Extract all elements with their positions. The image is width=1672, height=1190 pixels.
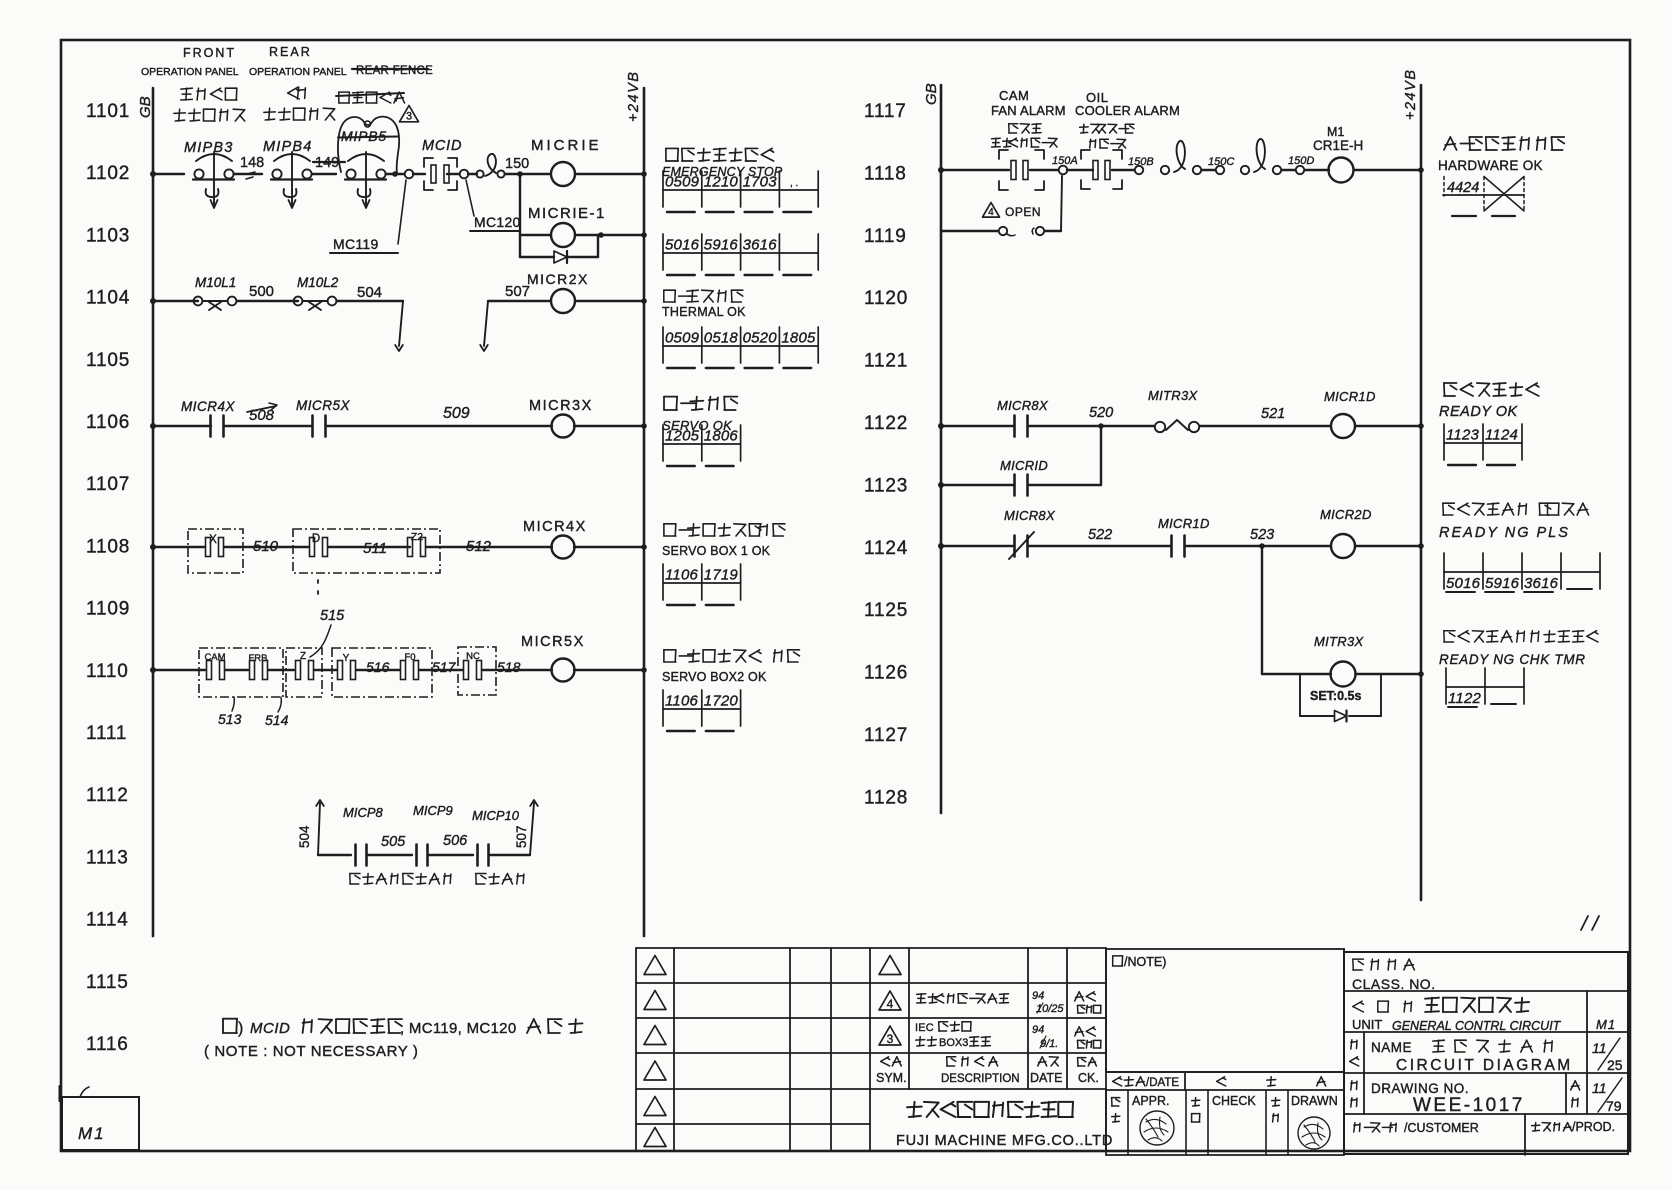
wire 150D to coil M1 CR1E-H [1305,169,1329,171]
wire node 150 to coil MICRIE [505,173,550,175]
svg-text:150: 150 [505,156,529,172]
svg-text:M10L2: M10L2 [297,275,339,290]
wire node 510 [224,546,309,548]
note box [1106,949,1344,1072]
wire rung 1119 bypass with open switch [941,230,998,232]
svg-text:0509: 0509 [665,330,700,347]
svg-text:SERVO BOX2 OK: SERVO BOX2 OK [662,670,767,684]
svg-text:0518: 0518 [704,330,739,347]
cross-reference 1122 [1446,686,1524,688]
svg-text:REAR FENCE: REAR FENCE [356,65,433,77]
svg-text:500: 500 [249,283,274,300]
wire node 505 [367,854,412,856]
svg-text:507: 507 [514,825,529,848]
svg-text:MICP10: MICP10 [472,808,520,823]
svg-text:CAM: CAM [999,88,1029,103]
wire coil MICR5X to +24VB bus [574,669,644,671]
wire node 523 to coil MICR2D [1185,545,1331,547]
svg-text:11: 11 [1592,1080,1607,1096]
svg-text:MICR4X: MICR4X [181,399,236,414]
deletion cloud around MIPB5 [338,117,399,173]
wire FRB-Z [268,669,294,671]
wire node 506 [428,854,473,856]
wire junction after MIPB5 [386,173,404,175]
continuation arrow node 504 (to rung 1113) [318,803,320,855]
svg-text:0509: 0509 [665,174,700,191]
date row [1106,1071,1344,1073]
label aux contact 2 (jp) [403,874,451,885]
wire coil MICR1D to +24VB bus [1355,425,1421,427]
svg-text:MICRID: MICRID [1000,458,1048,473]
svg-text:517: 517 [432,659,457,675]
svg-text:THERMAL OK: THERMAL OK [662,305,746,319]
wire node 507 right with continuation arrow [489,854,530,856]
svg-text:COOLER ALARM: COOLER ALARM [1075,103,1180,118]
svg-text:1106: 1106 [665,693,699,710]
wire coil MICR3X to +24VB bus [574,425,644,427]
wire rung 1113 left [318,854,351,856]
svg-text:150A: 150A [1052,155,1078,167]
wire node 517 [419,669,463,671]
servo box2 connector frame A [199,648,283,697]
svg-text:1720: 1720 [704,693,739,710]
note text japanese MCID jumper [223,1019,237,1033]
drawing no cell [1363,1073,1365,1114]
svg-text:MICR4X: MICR4X [523,519,587,535]
wire node 500 [237,300,298,302]
wire node 148 [234,173,262,175]
customer cell [1354,1123,1396,1132]
svg-text:MICP9: MICP9 [413,803,453,818]
svg-text:1104: 1104 [86,288,130,309]
svg-text:513: 513 [218,711,242,727]
svg-text:MICP8: MICP8 [343,805,384,820]
svg-text:521: 521 [1261,406,1285,422]
servo box2 connector frame D (NC) [458,647,496,695]
svg-text:CK.: CK. [1078,1071,1099,1085]
svg-text:5016: 5016 [1446,575,1481,592]
svg-text:MICR2X: MICR2X [527,271,589,287]
terminal MC120 [460,170,469,179]
wire node 518 to coil MICR5X [482,669,552,671]
svg-text:1112: 1112 [86,785,129,806]
contact MICR8X (rung 1122) [938,423,944,429]
svg-text:1101: 1101 [86,101,130,122]
svg-text:REAR: REAR [269,45,312,59]
svg-text:FAN ALARM: FAN ALARM [991,103,1066,118]
svg-text:1126: 1126 [864,663,908,684]
svg-text:MICR3X: MICR3X [529,398,593,414]
wire seal-in branch to node 520 [1100,426,1102,485]
svg-text:MICRIE: MICRIE [531,137,602,154]
wire rung 1110 from GB bus [150,667,156,673]
svg-text:GB: GB [137,96,154,118]
svg-text:1124: 1124 [864,538,908,559]
svg-text:1114: 1114 [86,910,129,931]
svg-text:MICR5X: MICR5X [296,398,351,413]
svg-text:CR1E-H: CR1E-H [1313,138,1363,153]
connector pair 150C-150D [1241,166,1249,174]
label front panel (jp) [181,88,237,100]
wire node 520 [1028,425,1154,427]
svg-text:511: 511 [363,540,387,557]
svg-text:( NOTE : NOT NECESSARY ): ( NOTE : NOT NECESSARY ) [204,1043,418,1060]
contact MICR8X NC (rung 1124) [938,543,944,549]
svg-text:GENERAL CONTRL CIRCUIT: GENERAL CONTRL CIRCUIT [1392,1019,1562,1033]
svg-text:520: 520 [1089,405,1113,421]
svg-text:1108: 1108 [86,536,130,557]
svg-text:OPERATION PANEL: OPERATION PANEL [249,66,347,78]
wire node 521 to coil MICR1D [1200,425,1330,427]
revision table headers [881,1057,902,1066]
label aux contact 3 (jp) [476,874,524,885]
svg-text:M1: M1 [1596,1017,1616,1032]
leader and label MC120 [466,180,474,216]
svg-text:514: 514 [265,712,289,728]
svg-text:MC120: MC120 [474,214,521,230]
wire Z-Y [314,669,337,671]
svg-text:CAM: CAM [204,652,225,663]
label rear panel (jp) [288,87,306,99]
svg-text:/NOTE): /NOTE) [1124,955,1166,969]
annotation ready ng check timer (jp+en) [1444,631,1598,642]
svg-text:MITR3X: MITR3X [1314,634,1365,649]
svg-text:M1: M1 [78,1124,106,1143]
connector pair 150B [1161,166,1169,174]
svg-text:94: 94 [1032,990,1044,1002]
wire node 522 [1028,545,1171,547]
terminal MC119 [405,170,414,179]
wire to 150C [1202,169,1215,171]
svg-text:523: 523 [1250,527,1274,543]
revision triangle blank M1 [879,956,901,975]
svg-text:1118: 1118 [864,163,907,184]
revision triangle blank L1 [644,956,666,975]
terminal 150A [1030,169,1058,171]
cross-reference 4424 with void cell [1443,177,1445,197]
cross-reference table 0509/1210/1703 [663,189,818,191]
svg-text:READY NG CHK TMR: READY NG CHK TMR [1439,652,1586,667]
svg-text:UNIT: UNIT [1352,1017,1382,1032]
svg-text:MIPB4: MIPB4 [263,139,313,155]
revision triangle blank L5 [644,1097,666,1116]
svg-text:148: 148 [240,155,264,171]
svg-text:1103: 1103 [86,225,130,246]
annotation thermal ok (jp+en) [664,290,743,302]
cross-reference 5016/5916/3616 (right) [1444,571,1600,573]
svg-text:94: 94 [1032,1024,1044,1036]
servo box1 connector group frame 2 [293,529,440,573]
svg-text:510: 510 [253,538,279,555]
svg-text:READY OK: READY OK [1439,404,1519,420]
svg-text:10/25: 10/25 [1036,1003,1064,1015]
svg-text:FRONT: FRONT [183,46,236,60]
class no cell [1353,959,1415,970]
drawn stamp [1298,1117,1330,1149]
svg-text:1122: 1122 [1448,690,1482,707]
revision triangle blank L6 [644,1128,666,1147]
wire rung 1106 from GB bus [150,423,156,429]
svg-text:25: 25 [1607,1057,1623,1073]
bus GB (left half) [152,88,155,936]
servo box1 connector group frame [188,529,243,573]
continuation arrow node 507 up to rung 1104 right [484,301,488,346]
svg-text:516: 516 [366,659,390,675]
svg-text:1127: 1127 [864,725,908,746]
svg-text:1102: 1102 [86,163,130,184]
svg-text:SET:0.5s: SET:0.5s [1310,689,1361,703]
svg-text:1106: 1106 [86,412,130,433]
annotation ready ok (jp+en) [1444,383,1539,396]
servo box2 connector frame B (Z) [286,648,322,697]
svg-text:522: 522 [1088,527,1112,543]
wire rung 1108 from GB bus [150,544,156,550]
svg-text:4: 4 [887,997,894,1011]
svg-text:, MC119, MC120: , MC119, MC120 [400,1020,516,1037]
svg-text:READY NG PLS: READY NG PLS [1439,525,1570,541]
wire CAM-FRB [225,669,248,671]
svg-text:1119: 1119 [864,226,907,247]
wire node 509 to coil MICR3X [326,425,552,427]
wire node 149 (deleted) [312,173,336,175]
svg-text:/PROD.: /PROD. [1572,1120,1615,1134]
svg-text:DRAWN: DRAWN [1291,1094,1338,1108]
svg-text:1105: 1105 [86,350,130,371]
svg-text:3: 3 [406,110,412,122]
svg-text:M1: M1 [1327,125,1344,139]
svg-text:M10L1: M10L1 [195,275,236,290]
wire between contacts [224,425,312,427]
svg-text:): ) [238,1020,243,1037]
wire coil MICR4X to +24VB bus [574,546,644,548]
svg-text:512: 512 [466,538,492,555]
svg-text:MC119: MC119 [333,236,379,252]
wire timer MITR3X to +24VB bus [1356,673,1421,675]
cross-reference table 1205/1806 [663,443,741,445]
svg-text:1120: 1120 [864,288,908,309]
svg-text:1719: 1719 [704,567,739,584]
revision triangle 4 and OPEN label [983,203,1000,218]
svg-text:5016: 5016 [665,237,700,254]
svg-text:Y: Y [343,653,350,664]
cross-reference table 1106/1719 [663,582,741,584]
svg-text:1107: 1107 [86,474,130,495]
svg-text:APPR.: APPR. [1132,1094,1170,1108]
svg-text:1109: 1109 [86,599,130,620]
svg-text:+24VB: +24VB [626,71,642,122]
wire rung 1104 from GB bus [150,298,156,304]
svg-text:MICR2D: MICR2D [1320,507,1372,522]
svg-text:FUJI MACHINE MFG.CO..LTD: FUJI MACHINE MFG.CO..LTD [896,1133,1113,1149]
svg-text:/CUSTOMER: /CUSTOMER [1404,1121,1479,1135]
svg-text:1117: 1117 [864,101,907,122]
svg-text:509: 509 [443,405,470,422]
wire coil MICRIE-1 to +24VB bus [575,234,644,236]
servo box2 connector frame C [332,648,432,697]
svg-text:9/1.: 9/1. [1040,1038,1058,1050]
company name fuji machine [907,1102,1073,1117]
svg-text:506: 506 [443,833,468,849]
revision triangle blank L3 [644,1026,666,1045]
annotation servo ok (jp+en) [664,397,737,410]
svg-text:5916: 5916 [1485,575,1520,592]
svg-text:CIRCUIT DIAGRAM: CIRCUIT DIAGRAM [1396,1057,1573,1074]
wire to connector 150 [413,173,425,175]
svg-text:1110: 1110 [86,661,129,682]
svg-text:11: 11 [1592,1040,1607,1056]
svg-text:+24VB: +24VB [1403,69,1419,120]
suppression diode across MICRIE-1 [519,235,521,257]
svg-text:/DATE: /DATE [1146,1077,1179,1089]
svg-text:DESCRIPTION: DESCRIPTION [941,1073,1020,1085]
svg-text:MICR8X: MICR8X [997,398,1049,413]
svg-text:79: 79 [1606,1098,1622,1114]
timer setting SET:0.5s with diode [1299,674,1301,716]
svg-text:SERVO BOX 1 OK: SERVO BOX 1 OK [662,544,771,558]
leader and label MC119 [398,180,406,244]
svg-text:1124: 1124 [1485,427,1518,444]
svg-text:518: 518 [497,659,521,675]
label aux contact 1 (jp) [350,874,398,885]
annotation servo box2 ok (jp+en) [664,650,800,662]
svg-text:1210: 1210 [704,174,739,191]
svg-text:1116: 1116 [86,1034,129,1055]
svg-text:MCID: MCID [422,138,462,154]
svg-text:4424: 4424 [1447,180,1479,196]
bus GB (right half) [940,85,943,813]
svg-text:515: 515 [320,608,345,624]
svg-text:1111: 1111 [86,723,127,744]
cross-reference table 0509/0518/0520/1805 [663,345,818,347]
annotation emergency stop (jp+en) [666,148,774,161]
wire coil MICRIE to +24VB bus [575,173,644,175]
svg-text:MICR1D: MICR1D [1324,389,1376,404]
wire node 504 with continuation arrow [337,300,403,302]
revision triangle blank L4 [644,1061,666,1080]
approval row [1105,1090,1107,1155]
svg-text:CHECK: CHECK [1212,1094,1256,1108]
svg-text:1125: 1125 [864,600,908,621]
svg-text:505: 505 [381,834,406,850]
wire node 507 to coil MICR2X [488,300,551,302]
title block revision table middle group [870,947,1106,949]
svg-text:1806: 1806 [704,428,739,445]
svg-text:D: D [312,533,320,545]
svg-text:OPERATION PANEL: OPERATION PANEL [141,66,239,78]
svg-text:OPEN: OPEN [1005,205,1041,219]
svg-text:NAME: NAME [1371,1040,1412,1055]
svg-text:BOX3: BOX3 [939,1037,968,1049]
connector pair at node 150 [476,170,483,177]
wire node 511 [328,546,410,548]
svg-text:HARDWARE OK: HARDWARE OK [1438,158,1543,173]
svg-text:1121: 1121 [864,351,908,372]
svg-text:1703: 1703 [743,174,778,191]
svg-text:GB: GB [923,83,940,105]
dotted link between box1 and box3 [317,580,319,583]
wire rung 1102 from GB bus [150,171,156,177]
svg-text:3616: 3616 [1524,575,1559,592]
wire rung 1118 from GB bus [938,167,944,173]
svg-text:WEE-1017: WEE-1017 [1413,1095,1525,1116]
svg-text:0520: 0520 [743,330,778,347]
svg-text:MICRIE-1: MICRIE-1 [528,205,606,222]
unit name cell [1353,1001,1412,1012]
svg-text:1115: 1115 [86,972,129,993]
svg-text:MITR3X: MITR3X [1148,388,1199,403]
svg-text:MICR8X: MICR8X [1004,508,1056,523]
svg-text:DATE: DATE [1030,1071,1062,1085]
revision triangle 3 marker near MIPB5 [400,106,419,122]
handwritten ditto mark [1581,916,1599,930]
svg-text:, .: , . [790,178,798,189]
annotation ready ng pulse (jp+en) [1443,503,1589,515]
label safety fence (jp, deleted) [339,92,405,103]
svg-text:1122: 1122 [864,413,908,434]
svg-text:CLASS. NO.: CLASS. NO. [1352,976,1436,992]
alarm contact CAM FAN (plates) [1011,161,1016,180]
svg-text:4: 4 [988,207,994,218]
svg-text:FRB: FRB [249,653,268,664]
wire branch down to MICRIE-1 [519,174,521,235]
svg-text:3616: 3616 [743,237,778,254]
wire branch node 523 down to timer MITR3X [1261,546,1263,674]
svg-text:MCID: MCID [250,1020,290,1037]
svg-text:1805: 1805 [781,330,816,347]
wire node 516 [356,669,400,671]
svg-text:IEC: IEC [915,1022,934,1034]
svg-text:MICR5X: MICR5X [521,634,585,650]
svg-text:DRAWING NO.: DRAWING NO. [1371,1081,1469,1096]
svg-text:1128: 1128 [864,787,908,808]
svg-text:1205: 1205 [665,428,700,445]
title block revision table left group [636,947,870,949]
sheet id box M1 [62,1097,139,1150]
svg-text:1123: 1123 [1446,427,1480,444]
svg-text:1113: 1113 [86,847,129,868]
cross-reference 1123/1124 [1444,442,1522,444]
revision entry 3 IEC [879,1026,901,1045]
name cell [1363,1032,1365,1073]
annotation servo box1 ok (jp+en) [664,524,785,536]
cross-reference table 1106/1720 [663,708,741,710]
svg-text:SYM.: SYM. [876,1071,907,1085]
svg-text:MICR1D: MICR1D [1158,516,1210,531]
approval stamp [1140,1111,1174,1145]
wire node 512 to coil MICR4X [426,546,552,548]
svg-text:504: 504 [297,825,312,848]
svg-text:3: 3 [887,1032,894,1046]
bus +24VB (left half) [643,88,646,936]
svg-text:504: 504 [357,284,382,301]
contact MICR1D (rung 1123, seal-in) [938,482,944,488]
svg-text:5916: 5916 [704,237,739,254]
wire coil CR1E-H to +24VB bus [1354,169,1421,171]
annotation hardware ok (jp+en) [1444,137,1564,150]
cross-reference table 5016/5916/3616 [663,252,818,254]
revision triangle blank L2 [644,991,666,1010]
svg-text:1123: 1123 [864,475,908,496]
revision entry 4 fan alarm [879,991,901,1010]
wire to connector 150B [1112,169,1134,171]
wire coil MICR2X to +24VB bus [575,300,644,302]
title block right group [1344,952,1628,1154]
alarm contact OIL COOLER (plates) [1067,169,1093,171]
bus +24VB (right half) [1420,85,1423,900]
svg-text:1106: 1106 [665,567,699,584]
wire coil MICR2D to +24VB bus [1355,545,1421,547]
